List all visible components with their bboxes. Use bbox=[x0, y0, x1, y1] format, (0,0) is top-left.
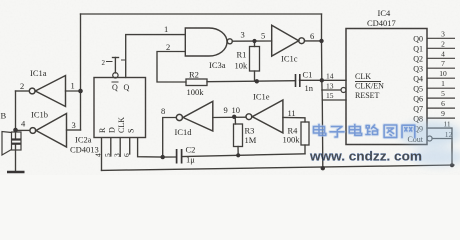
wire CLK/EN pin13 bbox=[322, 89, 341, 91]
wire IC2a Qbar pin2 stub bbox=[114, 58, 116, 73]
wire R3 top stub bbox=[234, 117, 236, 124]
wire R2 right to C1 bbox=[207, 81, 296, 82]
wire IC2a pin D stub bbox=[110, 138, 112, 156]
wire RESET pin15 bbox=[322, 99, 346, 101]
wire IC1a output pin2 bbox=[16, 90, 30, 92]
paper noise bbox=[0, 0, 1, 1]
wire Q9 pin11 bbox=[427, 128, 452, 165]
wire speaker vertical bbox=[15, 91, 17, 138]
wire mid rail right segment bbox=[183, 154, 306, 157]
wire speaker to ground bbox=[15, 145, 17, 172]
resistor R1 bbox=[250, 47, 260, 72]
D flip-flop IC2a box bbox=[94, 78, 146, 138]
resistor R2 bbox=[186, 79, 207, 86]
wire IC2a pin R down to rail bbox=[101, 138, 103, 170]
junction at speaker pin4 node bbox=[13, 128, 18, 133]
IC2a Qbar bubble bbox=[113, 73, 118, 78]
wire Cout pin12 bbox=[432, 138, 452, 140]
junction at C2 left node bbox=[161, 155, 165, 159]
junction at R1 bottom node bbox=[255, 79, 259, 83]
IC4 output pin lines Q0-Q8 bbox=[427, 38, 455, 118]
wire IC2a S net zigzag bbox=[138, 138, 163, 157]
wire R4 bottom stub bbox=[304, 145, 306, 154]
junction at R3 bottom node bbox=[236, 153, 240, 157]
wire IC1c output pin6 bbox=[305, 40, 322, 42]
junction at NAND output R1 top node bbox=[252, 39, 256, 43]
wire IC1b input pin3 bbox=[67, 129, 81, 131]
inverter IC1d bbox=[176, 101, 213, 131]
wire left vertical bus bbox=[80, 14, 82, 130]
watermark line 1 halo bbox=[314, 125, 415, 138]
wire IC1e input pin11 to R4 bbox=[283, 117, 305, 122]
counter IC4 box bbox=[346, 29, 427, 145]
speaker B piezo bbox=[2, 132, 21, 156]
junction at reset rail node bbox=[321, 166, 325, 170]
IC4 Cout bubble bbox=[427, 136, 432, 141]
wire R3 bottom stub bbox=[237, 147, 239, 156]
capacitor C2 bbox=[177, 149, 182, 164]
wire bottom rail bbox=[102, 165, 455, 170]
wire IC2a pin CLK stub bbox=[119, 138, 121, 156]
ground bbox=[7, 171, 25, 173]
buffer IC1c bbox=[272, 25, 305, 56]
wire IC1d output pin8 down bbox=[163, 118, 177, 158]
junction at IC1a input node bbox=[78, 89, 83, 94]
resistor R3 bbox=[234, 124, 243, 147]
paper background bbox=[0, 0, 460, 175]
wire C1 right to CLK pin14 bbox=[300, 79, 347, 81]
wire top bus bbox=[81, 13, 322, 15]
watermark ghost wash bbox=[399, 121, 460, 166]
wire R1 top stub bbox=[254, 41, 256, 47]
IC4 CLK/EN bubble bbox=[341, 88, 346, 93]
wire mid rail left segment C2 bbox=[163, 156, 176, 158]
watermark line 1 drawn glyphs (dian zi dian lu tu wang) bbox=[314, 125, 415, 138]
junction at C1 CLK node bbox=[320, 78, 324, 82]
inverter IC1a bbox=[29, 76, 65, 107]
capacitor C1 bbox=[296, 74, 300, 87]
wire NAND output bbox=[232, 40, 271, 42]
resistor R4 bbox=[301, 122, 309, 145]
wire IC1b output pin4 bbox=[16, 129, 30, 131]
wire R1 bottom stub bbox=[254, 71, 256, 81]
wire IC1a input pin1 bbox=[66, 90, 81, 92]
wire right vertical bus bbox=[322, 14, 323, 168]
wire IC2a pin S stub bbox=[129, 138, 131, 154]
junction at node 9-10 bbox=[232, 115, 236, 119]
junction at bottom rail right end bbox=[450, 163, 454, 167]
wire IC1d in IC1e out row bbox=[213, 116, 246, 118]
junction at IC1c output node bbox=[319, 39, 323, 43]
inverter IC1b bbox=[30, 114, 67, 148]
IC4 output labels Q0-Q9 Cout bbox=[407, 35, 423, 145]
IC4 output pin numbers bbox=[439, 29, 452, 139]
wire NAND input 2 bbox=[157, 52, 186, 83]
wire IC2a Q pin1 to NAND input 1 bbox=[126, 35, 186, 78]
NAND gate IC3a bbox=[185, 28, 232, 56]
inverter IC1e bbox=[246, 100, 283, 133]
